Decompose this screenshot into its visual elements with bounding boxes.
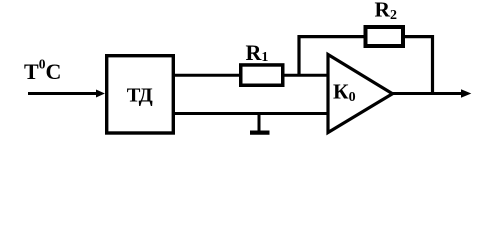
wire R1 to op-amp inverting input <box>283 74 329 77</box>
wire feedback right vertical down to output <box>431 35 434 95</box>
node T0C input label <box>24 57 61 85</box>
ground <box>250 114 270 133</box>
wire TD top output to R1 <box>173 74 241 77</box>
resistor R2 <box>366 0 404 46</box>
block U1 TD (thermal sensor) <box>107 56 174 133</box>
svg-text:ТД: ТД <box>127 84 153 106</box>
op-amp U2 K0 <box>328 55 393 133</box>
wire feedback top horizontal to R2 <box>298 35 366 38</box>
wire feedback left vertical from top wire up <box>297 35 300 76</box>
resistor R1 <box>241 40 283 85</box>
wire input arrow into TD <box>28 90 105 98</box>
wire R2 to right vertical <box>403 35 434 38</box>
wire op-amp output with arrow <box>392 89 471 98</box>
wire TD bottom output to op-amp second input <box>173 112 329 115</box>
